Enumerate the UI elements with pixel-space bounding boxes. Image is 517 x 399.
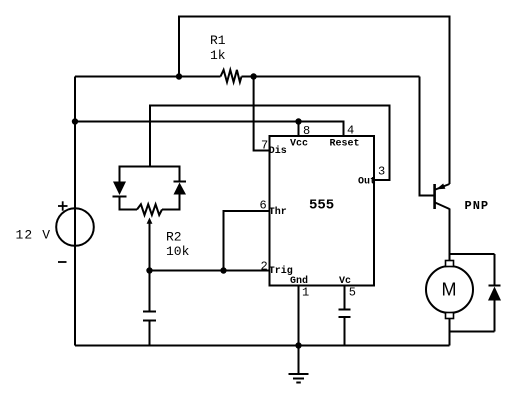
wire diode D1 anode leg — [119, 166, 121, 183]
motor M bottom brush — [446, 313, 454, 319]
battery plus mark — [58, 201, 68, 210]
svg-text:R2: R2 — [166, 230, 182, 245]
svg-text:3: 3 — [378, 165, 385, 179]
svg-text:1: 1 — [302, 286, 309, 300]
op-amp U1 555 IC body — [270, 136, 375, 286]
svg-text:Thr: Thr — [269, 206, 287, 218]
wire bottom ground rail — [75, 345, 450, 347]
wire diode D1 cathode leg — [119, 197, 121, 211]
battery V1 12V source — [56, 208, 94, 246]
motor M top brush — [446, 261, 454, 267]
wire flyback diode to motor bottom — [450, 331, 495, 333]
svg-text:6: 6 — [260, 199, 267, 213]
junction node Vcc branch — [72, 118, 78, 124]
svg-text:Dis: Dis — [269, 145, 287, 157]
wire diode D2 anode leg — [179, 195, 181, 211]
capacitor C2 — [339, 310, 351, 318]
svg-text:5: 5 — [349, 286, 356, 300]
potentiometer R2 wiper arrow — [147, 218, 153, 224]
svg-text:10k: 10k — [166, 244, 190, 259]
wire R1 rail right (R1 to base drop) — [242, 76, 420, 78]
junction node threshold — [220, 267, 226, 273]
capacitor C2 bottom lead — [344, 317, 346, 346]
capacitor C1 top lead — [149, 271, 151, 312]
wire wiper to trig rail — [149, 222, 151, 271]
transistor Q1 base bar — [433, 184, 436, 209]
diode D3 (flyback, up) — [488, 286, 501, 301]
wire pin 4 reset link — [299, 122, 344, 137]
wire collector to motor — [449, 209, 451, 263]
wire diode D3 cathode leg — [494, 254, 496, 286]
svg-text:M: M — [442, 280, 457, 300]
wire top rail (emitter feed from Vcc node) — [179, 17, 450, 185]
wire Vcc branch rail to pin 8 — [75, 121, 299, 123]
junction node wiper / C1 — [146, 267, 152, 273]
wire pin 8 stub — [298, 122, 300, 137]
wire threshold link (pin 6) — [224, 211, 270, 271]
junction node pin 8 — [295, 118, 301, 124]
junction node R1 left / top rail — [176, 73, 182, 79]
wire pin 5 stub — [344, 286, 346, 310]
wire discharge drop (R1 to pin 7) — [254, 77, 270, 151]
wire pot bottom bar left — [120, 209, 138, 211]
battery minus mark — [58, 261, 67, 263]
svg-text:PNP: PNP — [465, 199, 490, 213]
wire out rail (pin 3 to diode block) — [150, 106, 390, 181]
wire pot bottom bar right — [162, 209, 180, 211]
wire base drop to transistor — [420, 77, 434, 196]
svg-text:Vcc: Vcc — [290, 139, 308, 150]
wire pin 1 to ground — [298, 286, 300, 374]
svg-text:Out: Out — [358, 177, 376, 188]
resistor R1 — [221, 70, 242, 82]
ground — [289, 374, 309, 383]
wire left supply rail — [74, 77, 76, 346]
wire R1 rail left (Vcc to R1) — [75, 76, 221, 78]
svg-text:555: 555 — [309, 198, 334, 214]
wire motor top to flyback diode — [450, 253, 495, 255]
potentiometer R2 track — [137, 204, 162, 215]
wire diode D3 anode leg — [494, 300, 496, 332]
svg-text:1k: 1k — [210, 48, 226, 63]
diode D1 (down) — [113, 182, 127, 197]
transistor Q1 emitter with arrow — [436, 184, 450, 190]
svg-text:R1: R1 — [210, 33, 226, 48]
svg-text:7: 7 — [261, 139, 268, 153]
svg-text:4: 4 — [347, 124, 354, 138]
junction node R1 right / discharge — [250, 73, 256, 79]
wire diode block top bar — [120, 166, 180, 168]
svg-text:12 V: 12 V — [16, 228, 52, 243]
motor M body — [426, 266, 473, 313]
svg-text:Reset: Reset — [330, 139, 360, 150]
svg-text:8: 8 — [303, 124, 310, 138]
svg-text:2: 2 — [261, 260, 268, 274]
junction node ground — [295, 342, 301, 348]
transistor Q1 collector — [435, 203, 450, 210]
wire diode D2 cathode leg — [179, 166, 181, 182]
diode D2 (up) — [174, 182, 187, 195]
capacitor C1 — [143, 312, 156, 321]
wire trig rail (pin 2) — [150, 270, 270, 272]
capacitor C1 bottom lead — [149, 321, 151, 346]
wire motor bottom to ground rail — [449, 317, 451, 346]
